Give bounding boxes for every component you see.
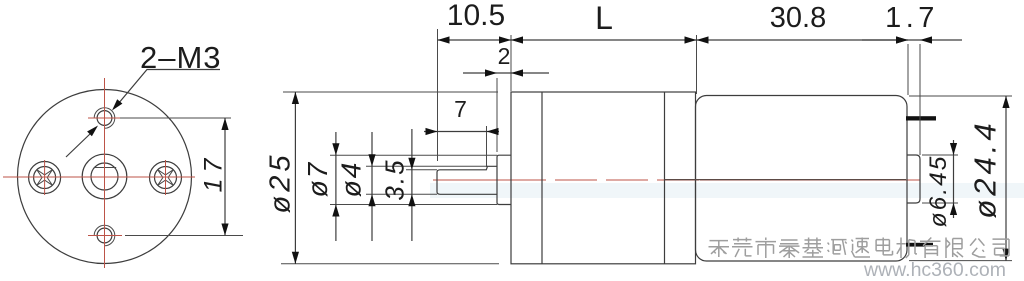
dimension 30.8	[697, 2, 909, 44]
faint watermark ghost band	[430, 183, 1024, 198]
svg-text:2: 2	[498, 43, 511, 69]
svg-text:ø25: ø25	[265, 152, 297, 214]
motor centerline dark	[665, 179, 907, 181]
svg-text:ø6.45: ø6.45	[925, 155, 952, 228]
shaft (output, with flat)	[437, 166, 497, 194]
svg-text:www.hc360.com: www.hc360.com	[863, 259, 1006, 281]
svg-text:3.5: 3.5	[380, 158, 410, 200]
svg-text:10.5: 10.5	[447, 0, 505, 32]
bottom hole M3	[94, 225, 115, 246]
dimension ø24.4	[909, 96, 1012, 261]
svg-text:ø24.4: ø24.4	[968, 119, 1003, 218]
terminal bottom	[906, 243, 933, 247]
red tick right screw	[165, 160, 167, 195]
dimension L	[511, 0, 697, 94]
rear bushing ø6.45	[907, 155, 920, 203]
dimension ø25	[265, 92, 500, 264]
red tick top hole	[88, 117, 122, 119]
top hole M3	[94, 108, 115, 129]
watermark url	[863, 259, 1006, 281]
svg-text:1.7: 1.7	[885, 2, 939, 34]
red tick bottom hole	[88, 235, 122, 237]
dimension 17	[120, 118, 243, 236]
shaft full-diameter line (ø4 upper extension)	[366, 166, 488, 194]
svg-text:7: 7	[454, 96, 467, 122]
label 2-M3	[66, 40, 222, 157]
dimension 3.5	[380, 129, 416, 241]
svg-text:30.8: 30.8	[770, 2, 826, 34]
red main centerline side view	[433, 179, 920, 181]
motor body	[696, 96, 908, 262]
dimension 7	[424, 96, 499, 167]
svg-text:ø7: ø7	[302, 161, 333, 198]
dimension 2	[463, 43, 549, 152]
gearbox front seam	[541, 92, 543, 264]
red centerline vertical front	[104, 78, 106, 268]
terminal top	[906, 116, 936, 120]
center boss circle	[82, 154, 127, 199]
gearbox rear seam	[664, 92, 666, 264]
red tick left screw	[44, 160, 46, 195]
dimension 1.7	[862, 2, 962, 155]
red centerline horizontal front	[3, 176, 195, 178]
svg-text:17: 17	[200, 153, 228, 193]
dimension 10.5	[438, 0, 512, 161]
front view outer circle (gearbox face ø25)	[18, 90, 192, 264]
dimension ø7	[302, 132, 497, 241]
dimension ø4	[336, 132, 376, 241]
bearing boss ø7	[497, 155, 511, 204]
svg-text:ø4: ø4	[336, 161, 367, 198]
dimension ø6.45	[922, 140, 958, 227]
right screw S2	[150, 162, 182, 194]
gearbox body	[511, 92, 696, 264]
watermark company name (pseudo CJK glyphs)	[709, 238, 1010, 259]
left screw S1	[29, 162, 61, 194]
svg-text:L: L	[595, 0, 613, 36]
